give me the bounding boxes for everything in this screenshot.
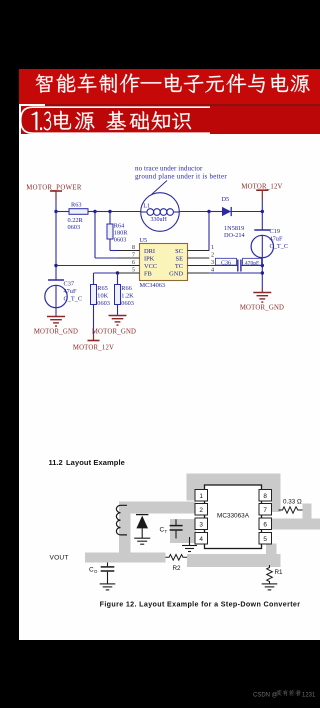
svg-text:MOTOR_GND: MOTOR_GND bbox=[240, 305, 284, 312]
svg-text:C_T_C: C_T_C bbox=[64, 296, 83, 303]
svg-text:Figure 12. Layout Example for: Figure 12. Layout Example for a Step-Dow… bbox=[100, 600, 301, 608]
wire power down to rail bbox=[55, 201, 57, 212]
banner2 title text 1.3电源基础知识 bbox=[31, 112, 37, 131]
svg-text:1: 1 bbox=[211, 244, 214, 251]
svg-text:FB: FB bbox=[144, 271, 152, 278]
resistor R63 bbox=[69, 209, 88, 215]
trace: VOUT rail bbox=[85, 553, 166, 563]
svg-text:1: 1 bbox=[199, 493, 203, 500]
trace: pin5 column bbox=[266, 544, 277, 556]
U5 pin stubs left bbox=[118, 250, 140, 252]
wire rail to R64 bbox=[109, 212, 111, 225]
label box C36 bbox=[216, 258, 237, 265]
inductor L1 bbox=[141, 193, 180, 232]
wire SC up to rail bbox=[208, 212, 210, 251]
svg-text:5: 5 bbox=[263, 536, 267, 543]
svg-text:0.33 Ω: 0.33 Ω bbox=[283, 499, 302, 506]
capacitor C19 bbox=[254, 229, 270, 231]
svg-text:MC33063A: MC33063A bbox=[217, 513, 250, 520]
U5 pin stubs right bbox=[188, 250, 210, 252]
node R64 top rail bbox=[108, 210, 111, 213]
node after R63 bbox=[93, 210, 96, 213]
svg-text:0603: 0603 bbox=[121, 300, 134, 307]
svg-text:VCC: VCC bbox=[144, 263, 157, 270]
svg-text:Layout Example: Layout Example bbox=[66, 458, 125, 467]
svg-text:6: 6 bbox=[263, 522, 267, 529]
svg-text:1.2K: 1.2K bbox=[121, 293, 134, 300]
wire R64 to pin8 bbox=[109, 239, 111, 251]
node GND junction bbox=[261, 271, 264, 274]
svg-text:MOTOR_GND: MOTOR_GND bbox=[92, 329, 136, 336]
node rail-left junction bbox=[54, 210, 57, 213]
banner1 title text 智能车制作—电子元件与电源 bbox=[36, 74, 53, 93]
wire R63 to node bbox=[88, 211, 95, 213]
note callout line bbox=[152, 181, 168, 195]
ground MOTOR_GND under R66 bbox=[109, 315, 127, 317]
wire FB to R66 bbox=[117, 273, 119, 285]
trace: CT block pin3 bbox=[170, 519, 196, 543]
svg-text:SE: SE bbox=[176, 256, 184, 263]
dark red separator bbox=[45, 104, 320, 107]
ground MOTOR_GND right bbox=[253, 292, 271, 294]
svg-text:330uH: 330uH bbox=[151, 217, 168, 223]
ground CO bbox=[100, 583, 116, 585]
diode D5 bbox=[222, 207, 231, 216]
resistor R65 bbox=[91, 285, 97, 305]
wire GND pin4 to output vertical bbox=[209, 272, 262, 274]
resistor R66 bbox=[115, 285, 121, 305]
resistor R2 bbox=[166, 555, 188, 561]
red banner 2 band bbox=[21, 106, 320, 134]
svg-text:R65: R65 bbox=[97, 285, 108, 292]
svg-text:DO-214: DO-214 bbox=[224, 232, 245, 239]
svg-text:ground plane under it is bette: ground plane under it is better bbox=[135, 173, 227, 181]
trace: right column Rsc to Vin bbox=[303, 504, 312, 524]
svg-text:47uF: 47uF bbox=[270, 235, 283, 242]
svg-text:C37: C37 bbox=[64, 281, 75, 288]
svg-text:T: T bbox=[165, 529, 168, 534]
node output 12V junction bbox=[261, 210, 264, 213]
wire C37 to gnd bbox=[55, 308, 57, 317]
trace: feedback band bbox=[187, 554, 281, 567]
wire TC to C36 bbox=[209, 265, 238, 267]
trace: pin2 band to coil bbox=[119, 502, 196, 514]
svg-text:GND: GND bbox=[169, 271, 183, 278]
svg-text:MC34063: MC34063 bbox=[140, 282, 166, 289]
svg-text:3: 3 bbox=[199, 522, 203, 529]
wire C19 to gnd bbox=[261, 258, 263, 289]
svg-text:L1: L1 bbox=[143, 203, 150, 210]
capacitor C37 bbox=[48, 279, 64, 281]
svg-text:8: 8 bbox=[263, 493, 267, 500]
svg-text:C36: C36 bbox=[221, 260, 231, 266]
svg-text:10K: 10K bbox=[97, 293, 108, 300]
wire 12V down bbox=[261, 201, 263, 231]
diode catch bbox=[136, 514, 148, 516]
svg-text:MOTOR_GND: MOTOR_GND bbox=[34, 329, 78, 336]
svg-text:VOUT: VOUT bbox=[50, 555, 69, 562]
trace: switch node big block bbox=[187, 474, 281, 501]
wire IPK: node down and right to pin7 bbox=[94, 212, 96, 259]
IC body MC33063A bbox=[205, 485, 262, 549]
ground under diode bbox=[134, 537, 150, 539]
red banner 1 bbox=[19, 69, 320, 104]
svg-text:11.2: 11.2 bbox=[49, 458, 63, 467]
power port MOTOR_12V bar bbox=[256, 189, 268, 191]
power port MOTOR_12V bottom bar bbox=[93, 334, 95, 341]
wire left vertical rail down bbox=[55, 212, 57, 281]
svg-text:TC: TC bbox=[175, 263, 183, 270]
white content background bbox=[19, 104, 320, 640]
svg-text:R66: R66 bbox=[121, 285, 132, 292]
resistor R1 bbox=[267, 565, 273, 584]
wire FB left bbox=[94, 272, 140, 274]
op-amp U5 MC34063 body bbox=[140, 244, 188, 281]
svg-text:1N5819: 1N5819 bbox=[224, 225, 244, 232]
svg-text:IPK: IPK bbox=[144, 256, 155, 263]
svg-text:7: 7 bbox=[132, 252, 135, 259]
IC pin boxes bbox=[195, 490, 208, 502]
svg-text:MOTOR_12V: MOTOR_12V bbox=[73, 345, 114, 352]
trace: Vin rail to pin6 bbox=[272, 519, 320, 530]
label box 470pF bbox=[243, 258, 262, 265]
svg-text:2: 2 bbox=[211, 252, 214, 259]
svg-text:CSDN @: CSDN @ bbox=[253, 693, 278, 699]
svg-text:0603: 0603 bbox=[68, 224, 81, 231]
svg-text:R2: R2 bbox=[173, 565, 182, 572]
svg-text:4: 4 bbox=[199, 536, 203, 543]
svg-text:5: 5 bbox=[132, 267, 135, 274]
svg-text:0603: 0603 bbox=[97, 300, 110, 307]
svg-text:1231: 1231 bbox=[302, 693, 316, 699]
wire D5 cathode to output node bbox=[231, 211, 262, 213]
wire rail to L1 bbox=[110, 211, 141, 213]
wire C36 to output vertical bbox=[241, 265, 262, 267]
resistor R64 bbox=[107, 224, 113, 239]
ground R1 bbox=[262, 583, 278, 585]
svg-text:C_T_C: C_T_C bbox=[270, 243, 289, 250]
wire R66 down to gnd bbox=[117, 305, 119, 316]
node L1/D5/SC junction bbox=[207, 210, 210, 213]
node FB / R66 junction bbox=[116, 271, 119, 274]
wire VCC bbox=[56, 265, 118, 267]
svg-text:7: 7 bbox=[263, 507, 267, 514]
svg-text:D5: D5 bbox=[222, 196, 230, 203]
trace: block column to pin7 bbox=[272, 484, 281, 513]
ground CT bbox=[189, 537, 191, 545]
wire node to node2 bbox=[95, 211, 110, 213]
trace: coil vertical bar bbox=[119, 514, 131, 554]
wire rail to R63 bbox=[56, 211, 69, 213]
svg-text:6: 6 bbox=[132, 259, 135, 266]
wire L1 to D5 node bbox=[179, 211, 209, 213]
capacitor C36 bbox=[237, 260, 239, 272]
ground MOTOR_GND under C37 bbox=[47, 316, 65, 318]
svg-text:U5: U5 bbox=[140, 237, 148, 244]
wire node to D5 anode bbox=[209, 211, 222, 213]
power port MOTOR_POWER bar bbox=[50, 190, 62, 192]
svg-text:SC: SC bbox=[175, 248, 183, 255]
wire R65 down to 12V port bbox=[93, 305, 95, 334]
svg-text:R63: R63 bbox=[71, 202, 82, 209]
node VCC junction bbox=[54, 264, 57, 267]
inductor coil bbox=[116, 505, 127, 535]
banner2 rounded tab white outline bbox=[21, 107, 210, 133]
svg-text:R1: R1 bbox=[275, 569, 284, 576]
svg-text:47uF: 47uF bbox=[64, 288, 77, 295]
svg-text:no trace under inductor: no trace under inductor bbox=[135, 165, 203, 173]
svg-text:0.22R: 0.22R bbox=[68, 217, 84, 224]
svg-text:C19: C19 bbox=[270, 228, 281, 235]
svg-text:8: 8 bbox=[132, 244, 135, 251]
svg-text:180R: 180R bbox=[114, 230, 128, 237]
svg-text:R64: R64 bbox=[114, 223, 125, 230]
svg-text:DRI: DRI bbox=[144, 248, 155, 255]
svg-text:2: 2 bbox=[199, 507, 203, 514]
svg-text:0603: 0603 bbox=[114, 237, 127, 244]
node TC junction bbox=[261, 264, 264, 267]
svg-text:O: O bbox=[94, 569, 98, 574]
